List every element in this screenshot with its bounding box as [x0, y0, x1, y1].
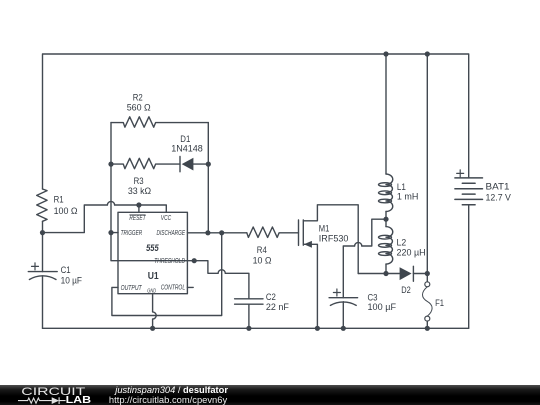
plus sign C1 [32, 263, 39, 270]
wire C3 tap to L1/L2 junction with hop over drain [343, 219, 386, 298]
resistor R3 [111, 158, 180, 168]
wire hop over node A vertical [107, 201, 114, 205]
resistor R4 [247, 227, 299, 237]
wire discharge line to R4 [187, 232, 246, 234]
plus sign C3 [333, 289, 340, 296]
capacitor C3 [329, 298, 358, 329]
wire control stub [187, 286, 193, 288]
fuse F1 [425, 282, 430, 287]
inductor L2 [385, 219, 387, 273]
svg-text:http://circuitlab.com/cpevn6y: http://circuitlab.com/cpevn6y [109, 394, 228, 405]
wire top rail [43, 54, 469, 189]
wire node A vertical (R2/R3 left, trigger, threshold) [111, 123, 194, 261]
logo schematic [18, 397, 66, 404]
diode D1 [180, 157, 208, 172]
wire trigger stub [111, 232, 118, 234]
inductor L1 [385, 54, 387, 219]
wire bottom rail [43, 327, 469, 329]
plus sign BAT1 [457, 170, 464, 177]
battery BAT1 [455, 178, 483, 205]
resistor R1 [37, 189, 47, 221]
svg-text:LAB: LAB [66, 395, 92, 405]
node dots [383, 51, 388, 56]
wire threshold route right of box [194, 261, 249, 299]
wire drain line to D2 [358, 273, 427, 275]
wire output route [112, 233, 222, 316]
wire node B vertical (R2/R3/D1 right to discharge) [207, 123, 209, 233]
wire RESET stub [138, 205, 140, 212]
footer bar [0, 385, 540, 405]
resistor R2 [111, 117, 208, 127]
capacitor C2 [235, 299, 263, 329]
transistor M1 body [299, 205, 359, 328]
wire hop threshold over output riser [218, 270, 225, 274]
diode D2 [412, 266, 414, 281]
wire battery negative to bottom rail [468, 205, 470, 328]
wire left rail lower [42, 221, 44, 328]
wire GND pin with hop over output wire [152, 294, 154, 329]
wire R1/C1 junction to VCC feed [43, 205, 167, 233]
wire F1 vertical from top rail [426, 54, 428, 282]
op-amp U1 555 box outline [118, 212, 187, 293]
capacitor C1 [28, 272, 57, 280]
